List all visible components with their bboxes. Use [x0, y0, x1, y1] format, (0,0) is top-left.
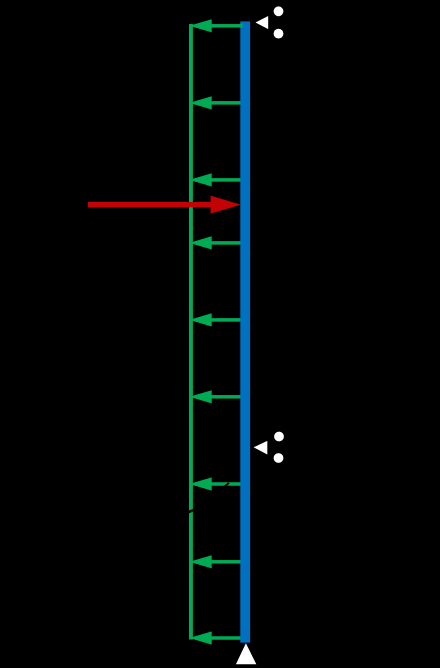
load arrow w8 — [189, 555, 240, 568]
top roller support roller 1 — [274, 6, 284, 16]
distributed load reference line (green vertical) — [189, 24, 193, 640]
load arrow w5 — [189, 313, 240, 326]
break mark on load line — [186, 508, 196, 514]
load arrow w7 — [189, 477, 240, 490]
top roller support triangle — [256, 16, 269, 29]
load arrow w4 — [189, 236, 240, 249]
bottom pin support triangle — [236, 643, 256, 664]
middle roller support roller 1 — [274, 432, 284, 442]
load arrow w1 — [189, 19, 240, 32]
concentrated force F (red arrow) — [88, 196, 241, 214]
top roller support roller 2 — [274, 29, 284, 39]
load arrow w2 — [189, 96, 240, 109]
middle roller support triangle — [254, 441, 268, 455]
load arrow w3 — [189, 173, 240, 186]
break mark on arrow w7 shaft — [224, 482, 230, 487]
load arrow w1 tail overlap at member top — [240, 23, 242, 28]
load arrow w6 — [189, 390, 240, 403]
middle roller support roller 2 — [274, 453, 284, 463]
load arrow w9 — [189, 631, 240, 644]
member (blue column) — [240, 21, 250, 642]
